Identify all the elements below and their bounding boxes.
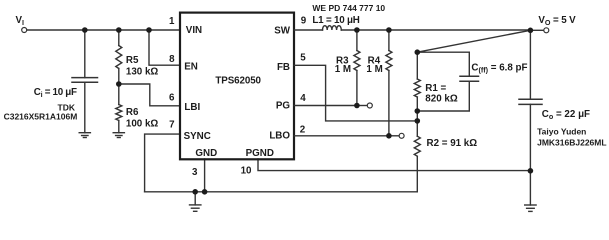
node Co ground — [528, 168, 534, 174]
svg-text:10: 10 — [241, 165, 252, 176]
svg-text:9: 9 — [301, 16, 307, 27]
svg-text:LBI: LBI — [184, 102, 200, 113]
svg-text:VO = 5 V: VO = 5 V — [538, 15, 576, 27]
wire Ci bottom — [84, 82, 86, 133]
svg-text:R5: R5 — [126, 55, 139, 66]
capacitor Ci plates — [72, 77, 98, 79]
terminal PG — [367, 103, 372, 108]
svg-text:L1 = 10 μH: L1 = 10 μH — [312, 15, 359, 26]
svg-text:LBO: LBO — [269, 131, 290, 142]
svg-text:1 M: 1 M — [366, 64, 382, 75]
svg-text:PGND: PGND — [246, 148, 274, 159]
capacitor Cff parallel loop — [417, 52, 469, 76]
svg-text:TPS62050: TPS62050 — [215, 75, 261, 86]
svg-text:C3216X5R1A106M: C3216X5R1A106M — [4, 111, 78, 121]
wire PG pin 4 — [294, 105, 357, 107]
svg-text:Co = 22 μF: Co = 22 μF — [542, 109, 590, 121]
inductor L1 — [323, 26, 342, 30]
svg-text:WE PD 744 777 10: WE PD 744 777 10 — [312, 3, 385, 13]
resistor R6 — [116, 105, 122, 121]
wire PGND pin 10 rail — [258, 159, 530, 171]
wire EN from input rail — [149, 30, 179, 65]
node R1 top — [415, 49, 421, 55]
resistor R1 — [416, 52, 418, 79]
svg-text:R2 = 91 kΩ: R2 = 91 kΩ — [427, 138, 478, 149]
wire SW pin 9 — [294, 29, 322, 31]
svg-text:C(ff) = 6.8 pF: C(ff) = 6.8 pF — [471, 62, 527, 74]
node R5/R6/LBI — [116, 81, 122, 87]
svg-text:2: 2 — [300, 124, 306, 135]
svg-text:7: 7 — [169, 120, 175, 131]
wire GND pin 3 — [204, 159, 206, 192]
ground R6 — [113, 133, 124, 138]
wire Vo terminal stub — [530, 29, 543, 31]
node GND pin rail — [202, 189, 208, 195]
svg-text:EN: EN — [184, 62, 198, 73]
wire Vo column — [529, 30, 531, 99]
svg-text:R6: R6 — [126, 107, 139, 118]
wire ground stub — [194, 192, 196, 205]
svg-text:100 kΩ: 100 kΩ — [126, 119, 159, 130]
wire output rail — [341, 29, 530, 31]
svg-text:VIN: VIN — [186, 25, 202, 36]
wire LBO pin 2 — [294, 135, 389, 137]
terminal LBO — [399, 133, 404, 138]
node R1/Cff bottom — [415, 108, 421, 114]
svg-text:JMK316BJ226ML: JMK316BJ226ML — [537, 137, 606, 147]
resistor R5 — [118, 30, 120, 46]
node R3 top — [354, 27, 360, 33]
svg-text:4: 4 — [300, 93, 306, 104]
capacitor Co plates — [519, 98, 542, 100]
node ground stub — [192, 189, 198, 195]
ground output — [525, 205, 536, 211]
wire FB pin 5 to divider — [294, 65, 417, 121]
resistor R3 — [356, 30, 358, 51]
ground Ci — [79, 133, 90, 138]
wire VI to VIN pin 1 — [27, 29, 179, 31]
wire SYNC to ground rail — [145, 134, 179, 192]
svg-text:FB: FB — [277, 62, 290, 73]
resistor R4 — [388, 30, 390, 51]
svg-text:1 M: 1 M — [335, 64, 351, 75]
svg-text:3: 3 — [192, 167, 198, 178]
svg-text:Ci = 10 μF: Ci = 10 μF — [34, 87, 77, 99]
node EN/input — [146, 27, 152, 33]
svg-text:VI: VI — [16, 15, 25, 27]
svg-text:1: 1 — [169, 16, 175, 27]
svg-text:6: 6 — [169, 92, 175, 103]
node LBO — [386, 133, 392, 139]
node Ci/input — [82, 27, 88, 33]
svg-text:PG: PG — [276, 100, 291, 111]
node R4 top — [386, 27, 392, 33]
svg-text:8: 8 — [169, 54, 175, 65]
node FB junction — [415, 118, 421, 124]
wire ground rail bottom — [145, 191, 418, 193]
wire sense diagonal to output — [417, 30, 530, 52]
svg-text:SW: SW — [274, 25, 291, 36]
node VO — [528, 28, 534, 34]
svg-text:5: 5 — [300, 52, 306, 63]
svg-text:820 kΩ: 820 kΩ — [425, 93, 458, 104]
IC U1 TPS62050 — [180, 13, 294, 160]
svg-text:130 kΩ: 130 kΩ — [126, 66, 159, 77]
node PG — [354, 103, 360, 109]
svg-text:Taiyo Yuden: Taiyo Yuden — [537, 126, 586, 136]
svg-text:R1 =: R1 = — [425, 83, 446, 94]
terminal VI — [22, 28, 27, 33]
capacitor Ci top wire — [84, 30, 86, 78]
svg-text:SYNC: SYNC — [184, 131, 211, 142]
resistor R2 — [416, 121, 418, 136]
svg-text:GND: GND — [195, 148, 217, 159]
ground main — [190, 205, 201, 211]
terminal VO — [544, 28, 549, 33]
node R5/input — [116, 27, 122, 33]
wire LBI from R5/R6 node — [119, 84, 179, 106]
